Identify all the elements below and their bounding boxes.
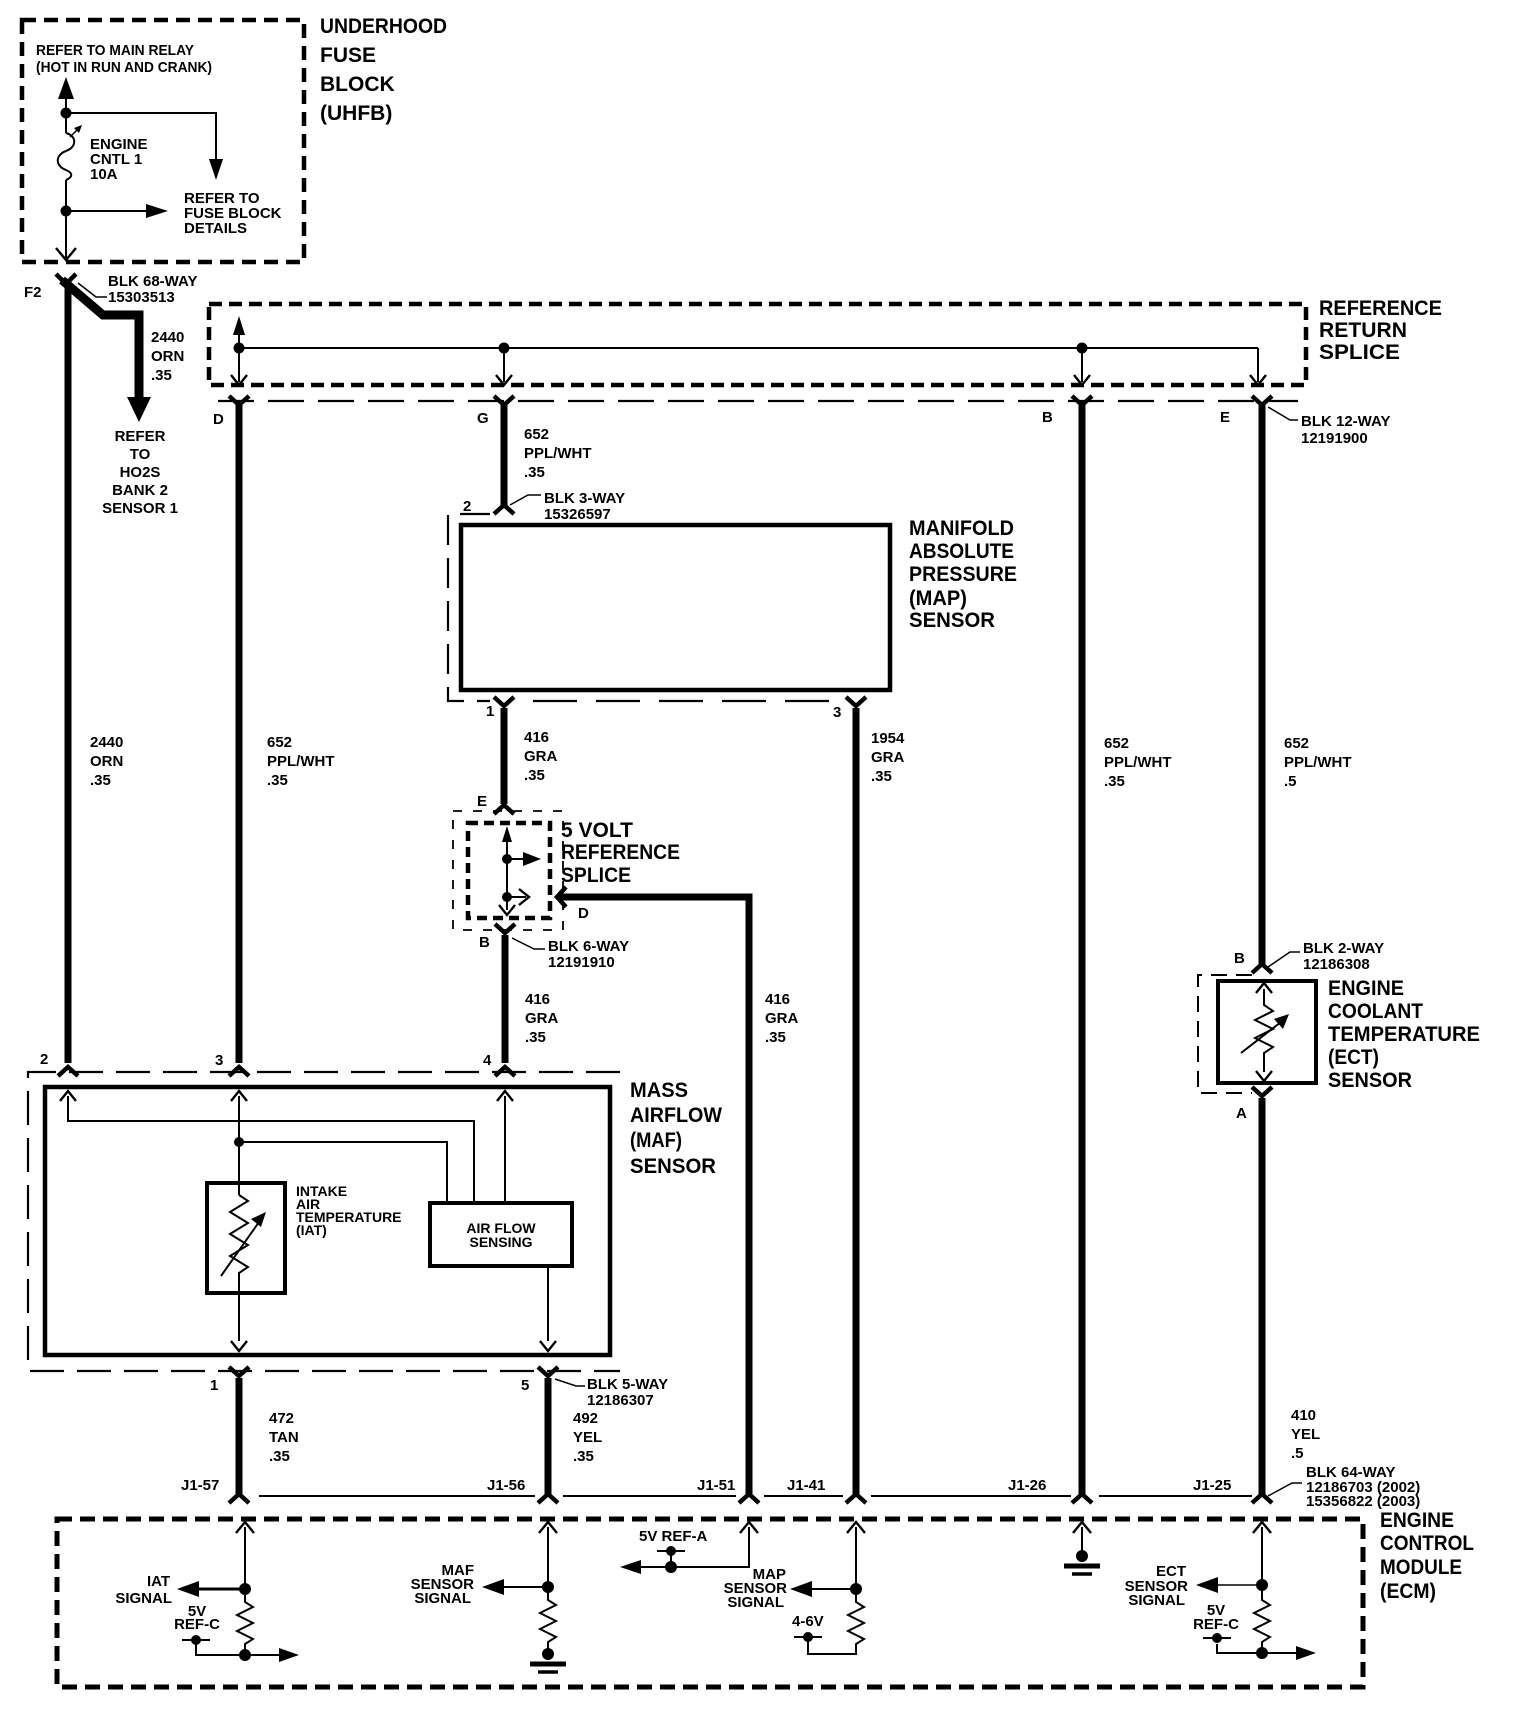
pin 2 label (MAP) (463, 498, 471, 515)
label: MAP SENSOR SIGNAL (724, 1566, 788, 1611)
node: ECT ref junction (1256, 1647, 1268, 1659)
node: splice junction D (234, 343, 245, 354)
node: MAF internal junction (234, 1137, 244, 1147)
svg-text:ORN: ORN (90, 753, 123, 770)
wire E column 652 PPL/WHT .5 (to ECT) (1259, 404, 1266, 965)
pin A label (ECT) (1236, 1105, 1247, 1122)
svg-text:REFER TO MAIN RELAY: REFER TO MAIN RELAY (36, 42, 194, 59)
pin A connector (ECT) (1252, 1087, 1272, 1096)
svg-text:.35: .35 (1104, 773, 1125, 790)
svg-text:UNDERHOOD: UNDERHOOD (320, 15, 447, 38)
svg-text:SENSOR: SENSOR (909, 609, 995, 632)
label: ENGINE CNTL 1 10A (90, 136, 148, 183)
svg-text:SPLICE: SPLICE (1319, 341, 1400, 364)
wire F2 vertical 2440 ORN (to MAF pin 2) (65, 284, 72, 1063)
wire: 5V REF-A left arrow (620, 1560, 641, 1574)
svg-text:ABSOLUTE: ABSOLUTE (909, 540, 1014, 563)
svg-text:.35: .35 (267, 772, 288, 789)
svg-text:12191900: 12191900 (1301, 430, 1368, 447)
wire: splice drop B (1074, 348, 1090, 385)
pin 1 label (MAF bottom) (210, 1377, 218, 1394)
svg-text:BLK 6-WAY: BLK 6-WAY (548, 938, 629, 955)
svg-text:3: 3 (215, 1052, 223, 1069)
svg-text:HO2S: HO2S (120, 464, 161, 481)
pin B connector (1072, 396, 1092, 405)
label: 5 VOLT REFERENCE SPLICE (561, 819, 680, 887)
reference return splice box (209, 304, 1306, 385)
label: IAT SIGNAL (115, 1573, 172, 1607)
wire: splice drop D (231, 348, 247, 385)
pin F2 label (24, 284, 42, 301)
pin B label (6-way) (479, 934, 490, 951)
label: REFERENCE RETURN SPLICE (1319, 297, 1442, 364)
node: MAP signal junction (850, 1583, 862, 1595)
pin 2 connector (MAF) (58, 1067, 78, 1076)
MAF sensor box (45, 1087, 610, 1355)
svg-text:.35: .35 (573, 1448, 594, 1465)
pin B label (1042, 409, 1053, 426)
pin B connector (ECT) (1252, 964, 1272, 973)
svg-text:IAT: IAT (147, 1573, 170, 1590)
label: ECT SENSOR SIGNAL (1125, 1563, 1189, 1609)
resistor R (MAP) (808, 1589, 864, 1654)
svg-text:CONTROL: CONTROL (1380, 1532, 1474, 1555)
wire: MAF pin5 to J1-56, 492 YEL (545, 1378, 552, 1494)
wire: ECT A to J1-25, 410 YEL (1259, 1098, 1266, 1494)
fuse F ENGINE CNTL 1 10A (58, 113, 82, 211)
label: BLK 6-WAY 12191910 (548, 938, 629, 971)
wire: IAT signal left arrow (177, 1581, 245, 1597)
pin 2 connector (MAP) (494, 505, 514, 514)
wire: splice down barb (499, 905, 515, 915)
leader to BLK 5-WAY label (555, 1379, 585, 1386)
svg-text:ORN: ORN (151, 348, 184, 365)
resistor R (IAT pullup) (237, 1589, 253, 1655)
wire: branch to fuse block details (down arrow) (66, 113, 223, 180)
svg-text:PPL/WHT: PPL/WHT (267, 753, 335, 770)
pin D connector (229, 396, 249, 405)
label: REFER TO MAIN RELAY (HOT IN RUN AND CRANK) (36, 42, 212, 76)
label: 1954 GRA .35 (871, 730, 905, 785)
ground (MAF signal) (530, 1648, 566, 1672)
svg-text:BLK 2-WAY: BLK 2-WAY (1303, 940, 1384, 957)
svg-text:10A: 10A (90, 166, 118, 183)
resistor R (ECT) (1217, 1585, 1270, 1653)
pin 1 label (MAP) (486, 703, 494, 720)
wire: fuse to main relay (up arrow) (58, 77, 74, 113)
svg-text:652: 652 (267, 734, 292, 751)
svg-text:4: 4 (483, 1052, 492, 1069)
svg-text:SIGNAL: SIGNAL (1128, 1592, 1185, 1609)
svg-text:652: 652 (1104, 735, 1129, 752)
node: fuse top junction (61, 108, 72, 119)
pin J1-25 label (1193, 1477, 1231, 1494)
IAT thermistor element (221, 1195, 266, 1341)
svg-text:B: B (1234, 950, 1245, 967)
svg-text:F2: F2 (24, 284, 42, 301)
svg-text:5 VOLT: 5 VOLT (561, 819, 633, 842)
underhood fuse block (UHFB) box (22, 20, 304, 262)
svg-text:J1-25: J1-25 (1193, 1477, 1231, 1494)
wire: ECT sensor signal left arrow (1196, 1577, 1262, 1593)
svg-text:15356822 (2003): 15356822 (2003) (1306, 1493, 1420, 1510)
svg-text:2440: 2440 (90, 734, 123, 751)
wire: splice up arrow at D column (233, 316, 245, 348)
svg-text:MODULE: MODULE (1380, 1556, 1462, 1579)
wire: air flow sensing to MAF pin5 (down arrow) (540, 1266, 556, 1351)
svg-text:2440: 2440 (151, 329, 184, 346)
svg-text:A: A (1236, 1105, 1247, 1122)
wire: MAF sensor signal left arrow (482, 1579, 548, 1595)
wire: splice drop E (1250, 348, 1266, 385)
svg-text:.35: .35 (871, 768, 892, 785)
pin J1-26 connector (1072, 1494, 1092, 1503)
label: UNDERHOOD FUSE BLOCK (UHFB) (320, 15, 447, 125)
node: ECT signal junction (1256, 1579, 1268, 1591)
pin E connector (6-way) (494, 805, 514, 814)
label: BLK 64-WAY 12186703 (2002) 15356822 (2003) (1306, 1464, 1420, 1510)
pin E label (1220, 409, 1230, 426)
svg-text:BLK 3-WAY: BLK 3-WAY (544, 490, 625, 507)
label: BLK 68-WAY 15303513 (108, 273, 197, 306)
svg-text:652: 652 (1284, 735, 1309, 752)
pin B label (ECT) (1234, 950, 1245, 967)
ECM J1-56 pin arrow (539, 1522, 557, 1587)
svg-text:PPL/WHT: PPL/WHT (1284, 754, 1352, 771)
svg-text:SIGNAL: SIGNAL (414, 1590, 471, 1607)
wire: MAF pin2 internal to air flow sensing (60, 1091, 474, 1203)
node: splice junction 1 (502, 854, 512, 864)
leader to BLK 12-WAY label (1268, 407, 1298, 420)
svg-text:DETAILS: DETAILS (184, 220, 247, 237)
svg-text:.5: .5 (1284, 773, 1297, 790)
label: 652 PPL/WHT .35 (wire G) (524, 426, 592, 481)
terminal: 4-6V tap (794, 1632, 822, 1642)
svg-text:YEL: YEL (573, 1429, 602, 1446)
wire B column 652 PPL/WHT (to J1-26) (1079, 404, 1086, 1494)
svg-text:MANIFOLD: MANIFOLD (909, 517, 1014, 540)
ECM J1-57 pin arrow (236, 1522, 254, 1589)
pin J1-41 label (787, 1477, 825, 1494)
label: 410 YEL .5 (1291, 1407, 1320, 1462)
IAT thermistor box (207, 1183, 285, 1293)
connector row line (BLK 3-WAY bottom) (533, 700, 836, 702)
label: 652 PPL/WHT .5 (wire E) (1284, 735, 1352, 790)
svg-text:.35: .35 (90, 772, 111, 789)
svg-text:BANK 2: BANK 2 (112, 482, 168, 499)
wire: MAF pin1 to J1-57, 472 TAN (236, 1378, 243, 1494)
pin J1-41 connector (846, 1494, 866, 1503)
label: REFER TO HO2S BANK 2 SENSOR 1 (102, 428, 178, 517)
svg-text:416: 416 (525, 991, 550, 1008)
label: 472 TAN .35 (269, 1410, 299, 1465)
wire: ECT ref right arrow (1262, 1646, 1316, 1660)
svg-text:.35: .35 (151, 367, 172, 384)
pin 3 connector (MAP) (846, 697, 866, 706)
pin 4 connector (MAF) (495, 1067, 515, 1076)
svg-text:SENSOR: SENSOR (1328, 1069, 1412, 1092)
pin E label (6-way) (477, 793, 487, 810)
svg-text:15326597: 15326597 (544, 506, 611, 523)
pin G connector (494, 396, 514, 405)
label: AIR FLOW SENSING (466, 1220, 536, 1250)
splice internal vertical wire with up arrow (502, 826, 512, 910)
leader line to connector label (78, 283, 107, 297)
svg-text:(ECM): (ECM) (1380, 1580, 1436, 1603)
svg-text:D: D (213, 411, 224, 428)
node: MAF signal junction (542, 1581, 554, 1593)
svg-text:2: 2 (463, 498, 471, 515)
pin 3 connector (MAF) (229, 1067, 249, 1076)
svg-text:REFERENCE: REFERENCE (561, 841, 680, 864)
svg-text:12191910: 12191910 (548, 954, 615, 971)
pin 5 label (MAF bottom) (521, 1377, 529, 1394)
label: 652 PPL/WHT .35 (wire D) (267, 734, 335, 789)
wire: splice right arrow (507, 852, 541, 866)
svg-text:J1-57: J1-57 (181, 1477, 219, 1494)
wire: MAF pin4 internal to air flow sensing (497, 1091, 513, 1203)
svg-text:E: E (477, 793, 487, 810)
label: 652 PPL/WHT .35 (wire B) (1104, 735, 1172, 790)
pin D label (6-way) (578, 905, 589, 922)
svg-text:BLK 68-WAY: BLK 68-WAY (108, 273, 197, 290)
svg-text:REF-C: REF-C (174, 1616, 220, 1633)
svg-text:1: 1 (486, 703, 494, 720)
label: ENGINE CONTROL MODULE (ECM) (1380, 1509, 1474, 1603)
svg-text:472: 472 (269, 1410, 294, 1427)
label: BLK 3-WAY 15326597 (544, 490, 625, 523)
svg-text:J1-41: J1-41 (787, 1477, 825, 1494)
wire: junction to air flow sensing (239, 1142, 447, 1203)
5 volt reference splice box (heavy dashed) (468, 823, 550, 918)
wire: thick branch to HO2S (62, 280, 151, 422)
wire: 6-way B to MAF pin 4, 416 GRA (502, 935, 509, 1063)
svg-text:4-6V: 4-6V (792, 1613, 824, 1630)
svg-text:(IAT): (IAT) (296, 1222, 327, 1238)
ECM J1-25 pin arrow (1253, 1522, 1271, 1585)
node: splice junction G (499, 343, 510, 354)
svg-text:B: B (479, 934, 490, 951)
svg-text:B: B (1042, 409, 1053, 426)
pin 5 connector (MAF bottom) (538, 1367, 558, 1376)
pin D connector (6-way output) (557, 887, 566, 907)
ECT sensor dashed outline (1198, 975, 1252, 1093)
label: MASS AIRFLOW (MAF) SENSOR (630, 1079, 722, 1178)
svg-text:RETURN: RETURN (1319, 319, 1407, 342)
svg-text:PRESSURE: PRESSURE (909, 563, 1017, 586)
svg-text:.35: .35 (524, 767, 545, 784)
pin 3 label (MAF) (215, 1052, 223, 1069)
svg-text:(MAP): (MAP) (909, 587, 967, 610)
svg-text:5: 5 (521, 1377, 529, 1394)
ECT sensor box (1218, 981, 1316, 1083)
label: 492 YEL .35 (573, 1410, 602, 1465)
svg-text:E: E (1220, 409, 1230, 426)
svg-text:GRA: GRA (871, 749, 905, 766)
pin 3 label (MAP) (833, 704, 841, 721)
connector F2 (BLK 68-WAY half) (56, 274, 76, 284)
svg-text:.35: .35 (525, 1029, 546, 1046)
pin J1-56 connector (538, 1494, 558, 1503)
svg-text:COOLANT: COOLANT (1328, 1000, 1423, 1023)
wire: splice output right with barb (507, 889, 529, 905)
svg-text:(UHFB): (UHFB) (320, 102, 392, 125)
svg-text:MASS: MASS (630, 1079, 688, 1102)
label: ENGINE COOLANT TEMPERATURE (ECT) SENSOR (1328, 977, 1480, 1092)
connector boundary line BLK 12-WAY (218, 400, 1298, 402)
svg-text:3: 3 (833, 704, 841, 721)
svg-text:G: G (477, 410, 489, 427)
wire: to fuse block details (right arrow) (66, 204, 168, 218)
pin J1-57 label (181, 1477, 219, 1494)
label: REFER TO FUSE BLOCK DETAILS (184, 190, 282, 237)
wire: MAP pin3 to J1-41, 1954 GRA (853, 708, 860, 1494)
air flow sensing box (430, 1203, 572, 1266)
svg-text:REF-C: REF-C (1193, 1616, 1239, 1633)
pin 2 label (MAF) (40, 1051, 48, 1068)
ECM J1-51 pin arrow (631, 1522, 758, 1567)
label: INTAKE AIR TEMPERATURE (IAT) (296, 1183, 402, 1238)
label: 416 GRA .35 (MAP pin1) (524, 729, 558, 784)
resistor R (MAF) (540, 1587, 556, 1650)
label: 416 GRA .35 (J1-51 wire) (765, 991, 799, 1046)
svg-text:REFERENCE: REFERENCE (1319, 297, 1442, 320)
svg-text:D: D (578, 905, 589, 922)
svg-text:PPL/WHT: PPL/WHT (524, 445, 592, 462)
svg-text:SIGNAL: SIGNAL (115, 1590, 172, 1607)
ground (J1-26) (1064, 1550, 1100, 1574)
wire: junction to IAT thermistor (238, 1142, 240, 1195)
pin J1-26 label (1008, 1477, 1046, 1494)
svg-text:BLK 12-WAY: BLK 12-WAY (1301, 413, 1390, 430)
svg-text:TO: TO (130, 446, 151, 463)
terminal: 5V REF-A tap (657, 1546, 685, 1573)
leader to BLK 64-WAY label (1268, 1483, 1302, 1496)
svg-text:1954: 1954 (871, 730, 905, 747)
node: splice junction 2 (502, 892, 512, 902)
pin J1-56 label (487, 1477, 525, 1494)
pin D label (213, 411, 224, 428)
pin J1-25 connector (1252, 1494, 1272, 1503)
svg-text:AIRFLOW: AIRFLOW (630, 1104, 722, 1127)
leader to BLK 2-WAY label (1268, 952, 1300, 967)
label: 2440 ORN .35 (branch) (151, 329, 184, 384)
terminal: 5V REF-C tap (left) (182, 1635, 245, 1655)
pin B connector (6-way) (495, 924, 515, 933)
MAP sensor dashed outline (left bracket) (448, 514, 490, 701)
svg-text:GRA: GRA (765, 1010, 799, 1027)
label: BLK 2-WAY 12186308 (1303, 940, 1384, 973)
label: MANIFOLD ABSOLUTE PRESSURE (MAP) SENSOR (909, 517, 1017, 632)
wire: 5V REF-C right arrow (245, 1648, 299, 1662)
ECM J1-26 pin arrow (1073, 1522, 1091, 1552)
svg-text:12186308: 12186308 (1303, 956, 1370, 973)
wire: 5V splice D to J1-51, 416 GRA (560, 897, 749, 1494)
svg-text:TEMPERATURE: TEMPERATURE (1328, 1023, 1480, 1046)
svg-text:410: 410 (1291, 1407, 1316, 1424)
node: 5V REF-C junction (239, 1649, 251, 1661)
wire: fuse output down through box bottom (56, 211, 76, 260)
pin J1-51 label (697, 1477, 735, 1494)
5 volt splice connector outline (thin dashed) (453, 811, 563, 930)
label: 5V REF-C (right) (1193, 1602, 1239, 1633)
svg-text:BLOCK: BLOCK (320, 73, 395, 96)
svg-text:J1-56: J1-56 (487, 1477, 525, 1494)
ECM J1-41 pin arrow (847, 1522, 865, 1589)
pin E connector (1252, 396, 1272, 405)
svg-text:SIGNAL: SIGNAL (727, 1594, 784, 1611)
leader to BLK 6-WAY label (512, 938, 545, 949)
svg-text:BLK 5-WAY: BLK 5-WAY (587, 1376, 668, 1393)
label: BLK 5-WAY 12186307 (587, 1376, 668, 1409)
svg-text:SENSOR 1: SENSOR 1 (102, 500, 178, 517)
pin J1-57 connector (229, 1494, 249, 1503)
svg-text:1: 1 (210, 1377, 218, 1394)
svg-text:(MAF): (MAF) (630, 1129, 682, 1152)
pin J1-51 connector (739, 1494, 759, 1503)
svg-text:.35: .35 (765, 1029, 786, 1046)
terminal: 5V REF-C tap (right) (1203, 1633, 1231, 1643)
connector boundary line BLK 64-WAY (259, 1495, 1252, 1497)
svg-text:PPL/WHT: PPL/WHT (1104, 754, 1172, 771)
wire: IAT to MAF pin1 (down arrow) (231, 1341, 247, 1351)
svg-text:2: 2 (40, 1051, 48, 1068)
svg-text:492: 492 (573, 1410, 598, 1427)
label: BLK 12-WAY 12191900 (1301, 413, 1390, 447)
svg-text:416: 416 (765, 991, 790, 1008)
pin 1 connector (MAP) (494, 697, 514, 706)
svg-text:SENSING: SENSING (469, 1234, 532, 1250)
svg-text:12186307: 12186307 (587, 1392, 654, 1409)
svg-text:J1-51: J1-51 (697, 1477, 735, 1494)
MAP sensor box (461, 525, 890, 690)
svg-text:416: 416 (524, 729, 549, 746)
label: MAF SENSOR SIGNAL (411, 1562, 475, 1607)
wire: MAP pin1 to 5V splice E, 416 GRA (501, 708, 508, 804)
svg-text:ENGINE: ENGINE (1380, 1509, 1454, 1532)
svg-text:.5: .5 (1291, 1445, 1304, 1462)
leader to BLK 3-WAY label (510, 495, 541, 505)
label: 5V REF-A (639, 1528, 708, 1545)
svg-text:SENSOR: SENSOR (630, 1155, 716, 1178)
pin G label (477, 410, 489, 427)
node: IAT signal junction (239, 1583, 251, 1595)
node: fuse bottom junction (61, 206, 72, 217)
svg-text:15303513: 15303513 (108, 289, 175, 306)
wire D column 652 PPL/WHT (to MAF pin 3) (236, 404, 243, 1063)
svg-text:.35: .35 (269, 1448, 290, 1465)
wire: MAP sensor signal left arrow (790, 1581, 856, 1597)
label: 4-6V (792, 1613, 824, 1630)
wire G column 652 PPL/WHT (to MAP pin 2) (501, 404, 508, 507)
svg-text:SPLICE: SPLICE (561, 864, 631, 887)
label: 5V REF-C (left) (174, 1603, 220, 1633)
pin 1 connector (MAF bottom) (229, 1367, 249, 1376)
svg-text:REFER: REFER (115, 428, 166, 445)
wire: MAF pin3 internal arrow (231, 1091, 247, 1142)
wire: splice bus (239, 347, 1258, 349)
ECT thermistor element (1241, 983, 1289, 1081)
svg-text:5V REF-A: 5V REF-A (639, 1528, 708, 1545)
svg-text:TAN: TAN (269, 1429, 299, 1446)
svg-text:(HOT IN RUN AND CRANK): (HOT IN RUN AND CRANK) (36, 59, 212, 76)
svg-text:FUSE: FUSE (320, 44, 376, 67)
svg-text:GRA: GRA (524, 748, 558, 765)
svg-text:YEL: YEL (1291, 1426, 1320, 1443)
engine control module (ECM) box (57, 1519, 1363, 1687)
MAF sensor dashed outline (28, 1072, 620, 1371)
svg-text:.35: .35 (524, 464, 545, 481)
